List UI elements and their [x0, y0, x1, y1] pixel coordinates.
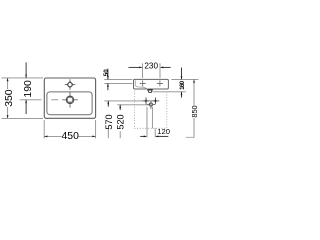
fixing holes line left — [104, 82, 132, 84]
dim 350 arrows — [7, 78, 9, 81]
drain symbol — [62, 92, 78, 108]
fixing hole cross right — [157, 80, 163, 86]
bowl section inner line — [135, 80, 147, 89]
dim 120 extension right — [154, 128, 156, 137]
rim extension right — [171, 78, 198, 80]
svg-text:190: 190 — [23, 80, 34, 98]
dim 230 extension lines — [142, 63, 144, 78]
floor tick — [186, 136, 195, 138]
svg-text:120: 120 — [157, 127, 170, 136]
dashed installation outline bottom — [134, 127, 166, 129]
dim 450 extension lines — [43, 120, 45, 138]
waste pipe left — [146, 107, 148, 138]
dashed installation outline right — [166, 92, 168, 129]
extension line top edge — [2, 77, 44, 79]
svg-text:850: 850 — [190, 105, 199, 117]
waste line 520 — [117, 104, 149, 106]
rim extension left — [104, 78, 132, 80]
dim 190 arrows — [25, 62, 27, 78]
svg-text:520: 520 — [116, 114, 126, 129]
faucet hole symbol — [65, 79, 76, 90]
dim 230 arrows — [129, 66, 142, 68]
svg-text:350: 350 — [4, 89, 15, 107]
dim 520 line — [119, 105, 121, 110]
dim 50 arrows — [107, 69, 109, 80]
centerline dash segments — [20, 99, 42, 101]
waste pipe right — [151, 107, 153, 129]
basin outer rim (top view) — [44, 78, 95, 118]
basin body (front view) — [134, 79, 169, 89]
svg-text:570: 570 — [104, 114, 114, 129]
drain trap under basin — [147, 89, 152, 91]
dim 850 line — [193, 79, 195, 105]
svg-text:230: 230 — [144, 62, 158, 71]
dim 350 line — [7, 78, 9, 89]
supply line 570 — [104, 100, 142, 102]
waste outlet symbol — [147, 100, 155, 108]
svg-text:450: 450 — [62, 131, 80, 142]
fixing hole cross left — [140, 80, 146, 86]
extension line bottom edge — [2, 117, 44, 119]
dim 570 line — [107, 101, 109, 107]
supply connection star left — [142, 97, 150, 104]
dim 450 line — [44, 135, 61, 137]
supply connection star right — [152, 97, 160, 104]
basin bowl (top view) — [47, 92, 92, 115]
under-basin line to 160 ext — [153, 91, 186, 93]
dim 160 arrows — [181, 68, 183, 80]
dashed installation outline left — [133, 91, 135, 129]
svg-text:50: 50 — [103, 69, 110, 77]
svg-text:160: 160 — [179, 80, 186, 89]
dim 120 arrows — [140, 135, 146, 137]
